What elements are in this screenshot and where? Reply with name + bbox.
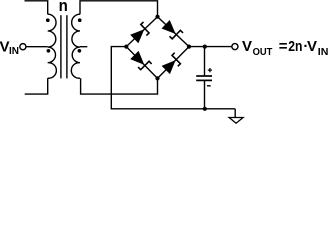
svg-text:n: n bbox=[59, 0, 68, 15]
diode D4 (bottom->right) bbox=[162, 53, 183, 74]
ground stub bbox=[234, 109, 236, 118]
svg-text:V: V bbox=[307, 38, 317, 55]
wire: secondary bottom lead to bridge bottom corner bbox=[81, 78, 158, 94]
wire: VIN terminal to primary center tap bbox=[26, 46, 48, 48]
node dot: bridge top bbox=[155, 15, 159, 19]
node dot: bridge left bbox=[124, 45, 128, 49]
wire: secondary top lead to bridge top corner bbox=[80, 1, 158, 17]
node dot: primary mid polarity bbox=[47, 49, 51, 53]
node dot: secondary top polarity bbox=[78, 18, 82, 22]
node dot: cap top junction bbox=[203, 45, 207, 49]
wire: secondary center tap stub bbox=[80, 46, 87, 48]
node dot: primary top polarity bbox=[46, 18, 50, 22]
wire: top-left stub to primary top lead bbox=[25, 1, 48, 14]
wire: primary bottom lead to stub bbox=[25, 78, 48, 94]
svg-text:IN: IN bbox=[318, 47, 329, 58]
svg-text:IN: IN bbox=[9, 46, 19, 57]
wire: bridge left corner to ground rail bbox=[111, 47, 235, 109]
transformer T1 primary winding bbox=[48, 14, 57, 78]
ground symbol (open triangle) bbox=[229, 118, 243, 124]
node VOUT terminal bbox=[232, 44, 238, 50]
diode D3 (left->bottom) bbox=[130, 51, 151, 72]
wire: bridge diamond bbox=[126, 17, 189, 79]
capacitor C1 bottom lead bbox=[204, 80, 206, 108]
node dot: bridge right bbox=[187, 45, 191, 49]
diode D2 (top->right) bbox=[162, 20, 184, 41]
capacitor polarity - bbox=[207, 85, 211, 87]
transformer T1 core bbox=[60, 15, 62, 78]
svg-text:V: V bbox=[242, 38, 252, 55]
node dot: cap bottom junction bbox=[203, 107, 207, 111]
node dot: bridge bottom bbox=[155, 76, 159, 80]
capacitor C1 top lead bbox=[204, 47, 206, 76]
node dot: secondary mid polarity bbox=[78, 49, 82, 53]
svg-text:OUT: OUT bbox=[253, 47, 273, 58]
diode D1 (left->top) bbox=[130, 22, 152, 43]
transformer T1 secondary winding bbox=[71, 14, 80, 78]
wire: bridge right corner to VOUT terminal bbox=[189, 46, 232, 48]
node VIN terminal bbox=[20, 44, 26, 50]
svg-text:=: = bbox=[279, 38, 288, 55]
capacitor C1 plates bbox=[196, 75, 212, 77]
capacitor polarity + bbox=[208, 68, 212, 72]
svg-text:2n: 2n bbox=[288, 38, 302, 55]
